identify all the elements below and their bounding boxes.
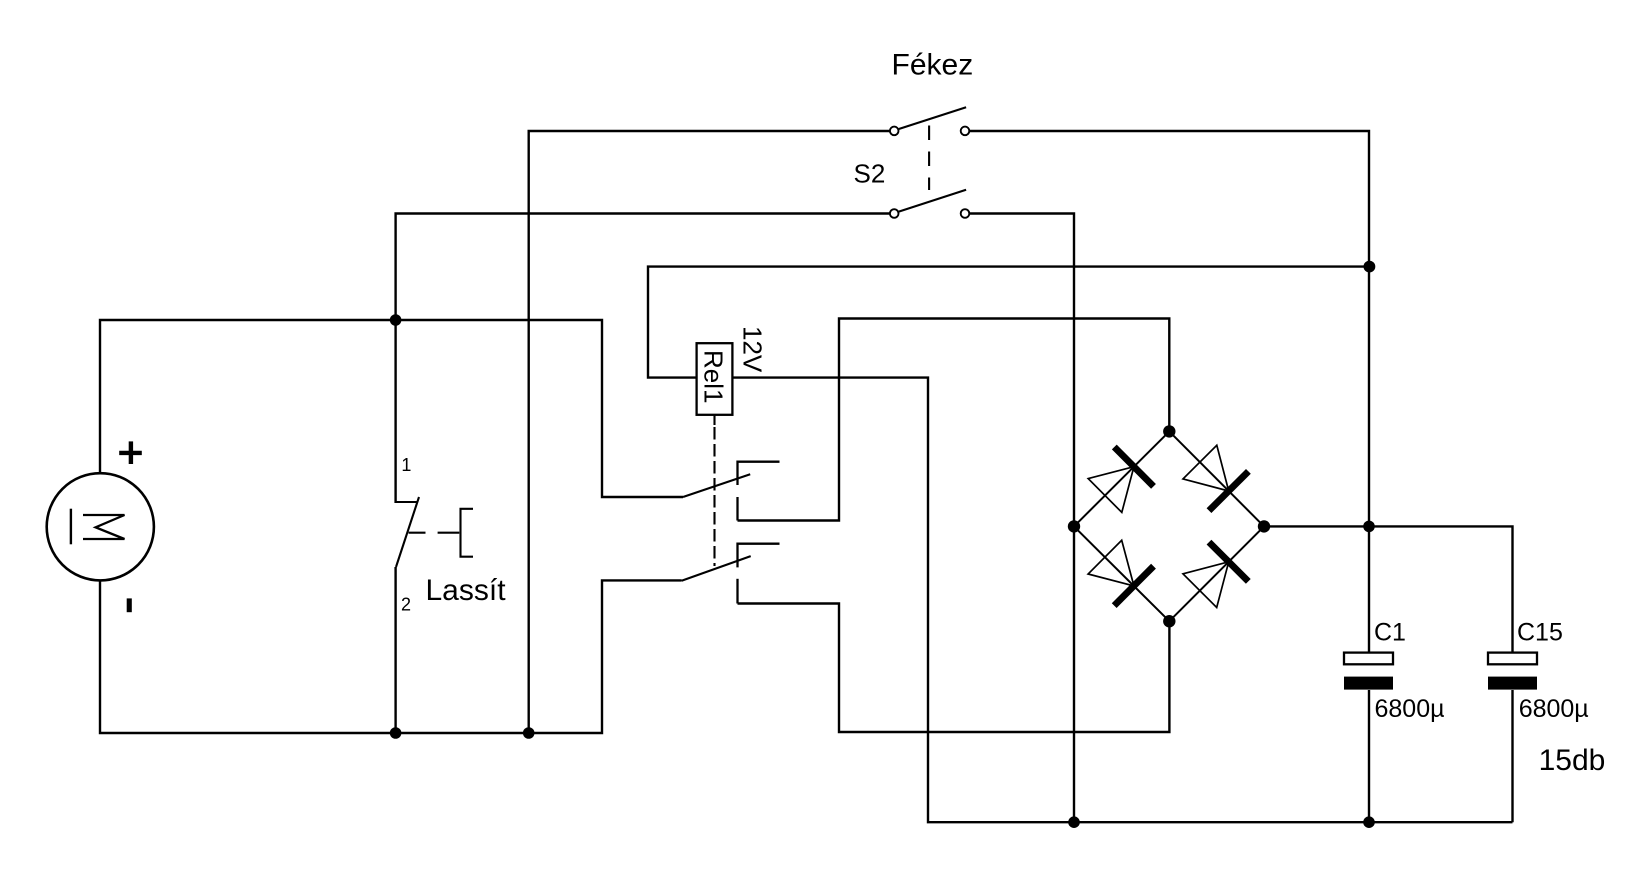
svg-text:2: 2 [401,594,411,614]
junction node C1 top [1363,521,1375,533]
junction node bridge bottom [1163,615,1175,627]
wire bottom rail to S2 contact1 left [529,131,890,733]
svg-text:6800µ: 6800µ [1519,695,1589,723]
wire contact1 NO throw to bridge top node [738,319,1170,521]
wire contact2 NO throw to bridge bottom node [738,604,1170,733]
diode D2 [1169,431,1264,526]
svg-text:Lassít: Lassít [426,574,507,607]
junction node bottom rail S2 [523,727,535,739]
capacitor C1 [1344,653,1393,690]
wire Rel1 coil left terminal loop [648,267,1369,378]
switch S2 contact 2 [890,190,969,218]
junction node Lassít top [390,314,402,326]
wire motor plus to contact1 common [100,320,683,497]
wire bridge right node to C15 top [1264,526,1513,653]
motor minus label [127,598,132,612]
diode D3 [1074,526,1169,621]
svg-text:6800µ: 6800µ [1375,695,1445,723]
S2 mechanical link dashed [928,126,930,191]
junction node Lassít bottom [390,727,402,739]
svg-text:C15: C15 [1517,618,1563,646]
wire S2 contact2 right down through bridge left node [970,214,1074,823]
wire Rel1 coil right terminal to bottom rail [732,378,1512,823]
switch S2 contact 1 [890,107,969,135]
svg-text:1: 1 [401,455,411,475]
diode D4 [1169,526,1264,621]
junction node bridge AC bottom rail [1068,816,1080,828]
wire C15 bottom lead [1511,690,1513,822]
pushbutton Lassít [396,497,473,567]
capacitor C15 [1488,653,1537,690]
relay contact K1.1 [683,462,780,521]
svg-text:12V: 12V [738,326,768,373]
junction node bridge top [1163,425,1175,437]
junction node C1 bottom [1363,816,1375,828]
motor M1 [47,473,154,580]
relay contact K1.2 [682,544,780,604]
motor plus label [119,441,142,464]
diode D1 [1074,431,1169,526]
junction node bridge right [1258,520,1270,532]
svg-text:15db: 15db [1539,744,1606,777]
junction node Rel1 feed [1364,261,1376,273]
svg-text:C1: C1 [1374,618,1406,646]
svg-text:Fékez: Fékez [892,49,974,82]
svg-text:S2: S2 [854,159,886,189]
wire Lassít top to S2 contact2 left [396,214,890,504]
junction node bridge left [1068,520,1080,532]
wire S2 contact1 right to C1 top [970,131,1369,653]
wire Lassít bottom lead [394,567,396,733]
svg-text:Rel1: Rel1 [699,350,729,403]
relay coil Rel1 [697,343,733,566]
wire motor minus bottom rail to contact2 common [100,580,682,733]
wire C1 bottom lead [1368,690,1370,822]
